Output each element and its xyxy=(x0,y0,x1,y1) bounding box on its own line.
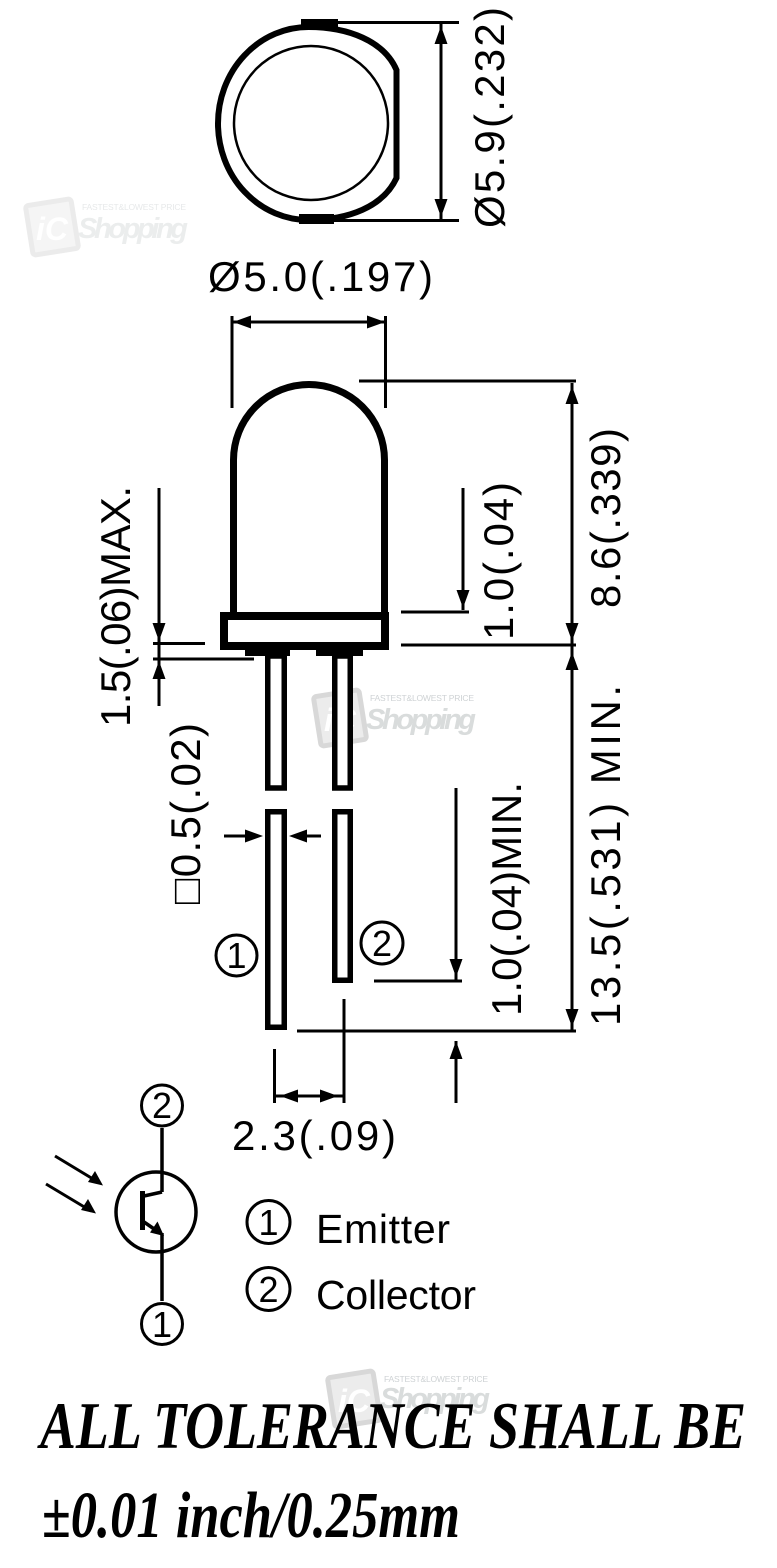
reference line right lead tip xyxy=(374,980,462,983)
extension line left D5.0 xyxy=(231,316,234,408)
collector bend xyxy=(144,1192,162,1196)
watermark 3 iCShopping bottom xyxy=(327,1371,490,1428)
lead width arrow left xyxy=(224,835,246,838)
emitter arrowhead xyxy=(150,1222,164,1237)
svg-text:13.5(.531) MIN.: 13.5(.531) MIN. xyxy=(582,685,629,1026)
lead width arrow right xyxy=(306,835,321,838)
main right dimension line xyxy=(571,383,574,1030)
dimension line 1.0 MIN upper xyxy=(455,788,458,981)
emitter line xyxy=(144,1222,160,1233)
top view outer flange ring with right flat xyxy=(218,27,396,220)
watermark 1 iCShopping top-left xyxy=(25,199,188,256)
watermark 2 iCShopping middle xyxy=(313,690,476,747)
svg-text:2: 2 xyxy=(372,923,392,964)
transistor circle xyxy=(116,1172,196,1252)
reference line flange top right xyxy=(401,611,469,614)
svg-text:2: 2 xyxy=(152,1085,172,1126)
arrow up 8.6 xyxy=(566,386,579,404)
reference line standoff bottom left xyxy=(153,658,254,661)
phototransistor symbol circled 1 bottom xyxy=(142,1304,183,1345)
svg-text:1: 1 xyxy=(258,1202,278,1243)
arrow up 13.5 xyxy=(566,652,579,670)
svg-text:□0.5(.02): □0.5(.02) xyxy=(162,723,209,904)
circled 1 near left lead xyxy=(216,935,257,976)
svg-text:Collector: Collector xyxy=(316,1272,476,1318)
arrow left D5.0 xyxy=(233,316,251,329)
svg-text:1: 1 xyxy=(226,935,246,976)
svg-text:Ø5.0(.197): Ø5.0(.197) xyxy=(208,253,433,300)
flange side view xyxy=(224,616,385,646)
extension line top of circle xyxy=(303,21,459,24)
svg-text:1.0(.04): 1.0(.04) xyxy=(475,482,522,640)
svg-text:8.6(.339): 8.6(.339) xyxy=(582,428,629,608)
circled 2 near right lead xyxy=(361,922,403,964)
svg-text:1.0(.04)MIN.: 1.0(.04)MIN. xyxy=(483,782,530,1016)
svg-text:Shopping: Shopping xyxy=(366,704,476,736)
arrow down 1.0 upper xyxy=(457,590,470,608)
collector wire xyxy=(160,1128,164,1192)
arrow right 2.3 xyxy=(320,1090,338,1103)
svg-text:FASTEST&LOWEST PRICE: FASTEST&LOWEST PRICE xyxy=(370,693,474,703)
LED body dome xyxy=(234,385,385,613)
arrow up D5.9 xyxy=(435,26,448,44)
bottom reference line xyxy=(297,1030,576,1033)
dimension line D5.0 xyxy=(231,321,387,324)
arrow right D5.0 xyxy=(367,316,385,329)
svg-text:2: 2 xyxy=(258,1269,278,1310)
svg-text:1.5(.06)MAX.: 1.5(.06)MAX. xyxy=(92,486,139,727)
extension line dome top xyxy=(359,380,576,383)
svg-text:Emitter: Emitter xyxy=(316,1206,450,1252)
arrow up 1.0 MIN lower xyxy=(450,1041,463,1059)
base bar xyxy=(140,1191,145,1230)
arrow left 2.3 xyxy=(280,1090,298,1103)
arrow down 1.5 xyxy=(153,623,166,641)
extension line right lead 2.3 xyxy=(343,999,346,1103)
arrow down 1.0 MIN xyxy=(450,959,463,977)
lower lead right (pin 2) xyxy=(335,812,351,981)
svg-text:FASTEST&LOWEST PRICE: FASTEST&LOWEST PRICE xyxy=(82,202,186,212)
dimension line 1.0 upper xyxy=(462,488,465,610)
upper lead right xyxy=(335,656,351,788)
arrow up 1.5 xyxy=(153,661,166,679)
upper lead left xyxy=(268,656,285,788)
lead shoulder right xyxy=(316,646,363,656)
extension line left lead 2.3 xyxy=(273,1049,276,1103)
svg-text:1: 1 xyxy=(152,1304,172,1345)
svg-text:iC: iC xyxy=(36,211,69,247)
dimension line 1.5 vertical xyxy=(158,488,161,706)
lower lead left (pin 1) xyxy=(268,812,285,1028)
reference line flange bottom left xyxy=(153,642,205,645)
arrow down 13.5 xyxy=(566,1009,579,1027)
legend circled 1 xyxy=(247,1201,290,1244)
light arrow B xyxy=(46,1184,91,1211)
reference line flange bottom right xyxy=(401,644,576,647)
phototransistor symbol circled 2 top xyxy=(142,1085,183,1126)
arrow down 8.6 xyxy=(566,623,579,641)
dimension line D5.9 vertical xyxy=(440,23,443,221)
svg-text:Ø5.9(.232): Ø5.9(.232) xyxy=(466,7,513,228)
svg-text:2.3(.09): 2.3(.09) xyxy=(232,1112,396,1159)
svg-text:±0.01 inch/0.25mm: ±0.01 inch/0.25mm xyxy=(42,1479,460,1552)
svg-text:ALL TOLERANCE SHALL BE: ALL TOLERANCE SHALL BE xyxy=(37,1389,746,1463)
emitter wire xyxy=(160,1233,164,1301)
arrow down D5.9 xyxy=(435,199,448,217)
dimension line 2.3 xyxy=(275,1095,345,1098)
top view inner epoxy circle xyxy=(234,46,388,200)
svg-text:Shopping: Shopping xyxy=(78,213,188,245)
legend circled 2 xyxy=(247,1268,290,1311)
lead shoulder left xyxy=(245,646,290,656)
light arrow A xyxy=(55,1156,98,1182)
extension line right D5.0 xyxy=(384,316,387,408)
extension line bottom of circle xyxy=(303,219,459,222)
